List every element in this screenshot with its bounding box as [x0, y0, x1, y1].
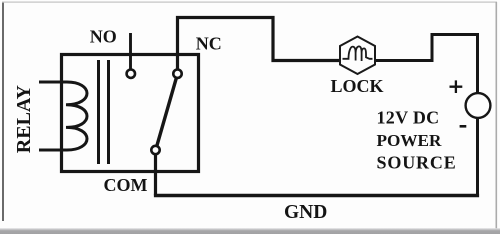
relay coil bottom lead wire [39, 149, 66, 152]
relay core line 2 [107, 60, 110, 164]
relay coil top lead wire [39, 81, 66, 84]
plus symbol [450, 80, 463, 93]
frame bottom gray band [0, 228, 500, 234]
wire power source to gnd [476, 118, 479, 198]
minus symbol [460, 125, 467, 128]
lock solenoid hexagon [340, 37, 375, 75]
relay coil [66, 82, 87, 150]
svg-text:NO: NO [90, 26, 117, 46]
frame left border [2, 2, 4, 221]
svg-text:LOCK: LOCK [331, 76, 384, 96]
relay core line 1 [97, 60, 100, 164]
svg-text:POWER: POWER [377, 131, 443, 150]
COM wire down [154, 154, 157, 195]
svg-text:SOURCE: SOURCE [377, 152, 457, 172]
switch arm COM to NC [157, 79, 176, 147]
relay box [62, 55, 199, 172]
NO contact terminal [127, 70, 135, 78]
frame right border [496, 2, 498, 229]
wire lock to power source [374, 35, 478, 94]
GND bus wire [154, 194, 479, 197]
NO terminal stub wire [129, 33, 132, 70]
lock solenoid squiggle [343, 46, 373, 61]
svg-text:GND: GND [284, 202, 327, 223]
NC contact terminal [173, 70, 181, 78]
wire NC up over to lock branch [178, 18, 342, 70]
frame top border [2, 2, 497, 3]
COM contact terminal [151, 146, 159, 154]
svg-text:RELAY: RELAY [13, 84, 35, 153]
svg-text:COM: COM [104, 175, 148, 195]
svg-text:NC: NC [196, 34, 222, 54]
power source circle [466, 93, 491, 118]
svg-text:12V DC: 12V DC [377, 108, 440, 128]
